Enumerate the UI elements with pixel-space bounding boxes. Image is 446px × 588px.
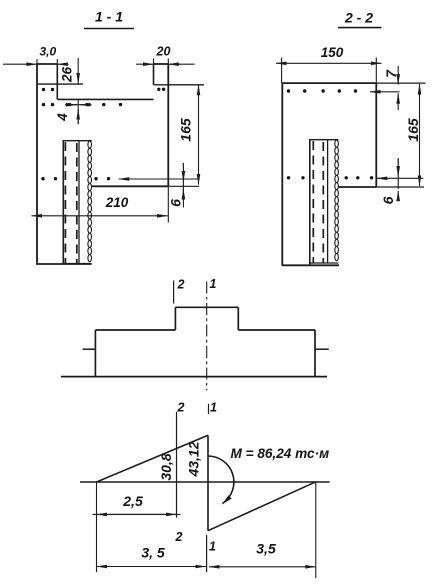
cage 2-2 top edge — [309, 139, 338, 141]
section 1-1 left ear right edge — [56, 64, 58, 99]
svg-text:M = 86,24 тс·м: M = 86,24 тс·м — [231, 446, 330, 461]
cage 1-1 top edge — [62, 140, 91, 142]
elevation ground line — [61, 376, 327, 378]
svg-text:30,8: 30,8 — [158, 453, 174, 480]
cage 1-1 left solid line — [62, 141, 64, 264]
dim 3,5 right line with arrows — [209, 566, 316, 568]
section 2-2 top edge extension — [376, 82, 425, 84]
svg-text:150: 150 — [321, 45, 344, 60]
section 1-1 right ear left edge — [153, 64, 155, 85]
cage 2-2 bottom edge — [309, 262, 338, 264]
dim 2,5 line with arrows — [93, 513, 181, 515]
dim 4 tick arrows — [67, 104, 77, 106]
cage 2-2 middle dashed line — [322, 142, 324, 263]
section 1-1 recess floor edge — [57, 98, 153, 100]
section 1-1 left ear top edge — [36, 63, 57, 65]
dim 150 ext line left — [281, 58, 283, 84]
moment diagram section line 2 upper — [176, 412, 178, 518]
dim 4 vertical line below — [77, 99, 79, 124]
cage 2-2 left solid line — [309, 140, 311, 265]
dim 150 ext line right — [375, 58, 377, 84]
svg-text:210: 210 — [105, 195, 129, 210]
svg-text:2: 2 — [175, 530, 183, 544]
section 2-2 flange bottom edge — [339, 186, 377, 188]
svg-text:3,5: 3,5 — [256, 541, 276, 557]
svg-text:2 - 2: 2 - 2 — [344, 10, 373, 26]
svg-text:1: 1 — [210, 277, 217, 291]
dim 30 line right tail with arrow — [57, 63, 68, 65]
section 2-2 bottom edge — [282, 264, 339, 266]
svg-text:26: 26 — [60, 67, 75, 84]
dim 6 s2 up arrow — [397, 191, 399, 200]
elevation main top right edge — [238, 329, 315, 331]
extension line left support — [96, 482, 98, 572]
section 1-1 mid rebar leader arrow — [119, 178, 200, 180]
dim 6 s1 up arrow — [182, 189, 184, 208]
section 2-2 mid rebar dots — [287, 176, 290, 179]
svg-text:43,12: 43,12 — [186, 441, 202, 477]
svg-text:20: 20 — [156, 45, 171, 59]
dim 30 ext tick right — [56, 59, 58, 64]
section 1-1 right ear bottom line + 165 extension — [154, 84, 205, 86]
cage 1-1 hatched strip ovals — [88, 141, 92, 148]
moment diagram baseline — [80, 481, 330, 483]
moment diagram center vertical (triangle edges) — [207, 435, 209, 530]
svg-text:6: 6 — [380, 196, 396, 204]
section 1-1 outline left edge — [36, 63, 38, 264]
dim 20 line right tail with arrow — [168, 63, 194, 65]
svg-text:1 - 1: 1 - 1 — [95, 9, 123, 25]
moment arc arrow — [208, 456, 234, 504]
cage 1-1 left dashed line — [64, 142, 66, 263]
elevation raised top edge — [175, 306, 238, 308]
moment diagram section line 1 upper tick — [208, 404, 210, 414]
dim 4 horizontal tick line — [65, 104, 92, 106]
elevation left tick — [83, 348, 96, 350]
section 1-1 rebar dots row under recess — [42, 103, 45, 106]
dim 150 line with arrows — [276, 62, 382, 64]
dim 20 ext tick left — [153, 59, 155, 65]
elevation right edge — [314, 330, 316, 376]
svg-text:2,5: 2,5 — [122, 493, 143, 509]
elevation section line 1 (dash-dot) — [206, 282, 208, 391]
dim 6 s2 down arrow — [397, 158, 399, 189]
section 1-1 right ear rebar dots — [157, 88, 160, 91]
section 1-1 title underline — [84, 28, 134, 30]
dim 165 s2 vertical line with arrows — [419, 84, 421, 186]
cage 1-1 bottom edge — [62, 263, 91, 265]
svg-text:1: 1 — [209, 540, 216, 554]
section 1-1 top-left rebar dots row 1 — [42, 88, 45, 91]
section 1-1 right ear top edge — [154, 63, 169, 65]
svg-text:165: 165 — [178, 118, 194, 142]
section 1-1 right edge — [167, 64, 169, 186]
section 2-2 top edge — [282, 82, 377, 84]
dim 20 line left tail with arrow — [136, 63, 154, 65]
svg-text:4: 4 — [55, 113, 70, 122]
dim 6 s1 down arrow — [182, 163, 184, 195]
elevation section line 2 — [173, 281, 175, 304]
moment diagram line 1 bottom tick + extension — [206, 535, 208, 572]
cage 1-1 middle solid line — [78, 141, 80, 264]
section 1-1 flange bottom edge — [92, 185, 168, 187]
dim 26 vertical line with down arrow — [77, 58, 79, 84]
section 2-2 left edge — [281, 83, 283, 265]
cage 1-1 middle dashed line — [76, 143, 78, 263]
svg-text:3, 5: 3, 5 — [141, 545, 165, 561]
dim 7 up arrow — [397, 93, 399, 110]
elevation raised right step edge — [237, 307, 239, 330]
elevation raised left step edge — [174, 307, 176, 330]
svg-text:6: 6 — [168, 199, 184, 207]
elevation main top left edge — [95, 329, 175, 331]
dim 7 down arrow — [397, 66, 399, 85]
svg-text:2: 2 — [177, 401, 185, 415]
section 2-2 mid rebar leader arrow — [377, 177, 424, 179]
section 1-1 flange bottom extension line — [168, 185, 199, 187]
dim 3,5 left line with arrows — [97, 566, 207, 568]
svg-text:3,0: 3,0 — [39, 44, 56, 58]
elevation left edge — [94, 330, 96, 376]
section 2-2 top rebar dots — [287, 89, 290, 92]
dim 20 ext tick right — [167, 59, 169, 65]
cage 2-2 hatched strip ovals — [335, 140, 339, 147]
cage 2-2 middle solid line — [327, 140, 329, 263]
svg-text:2: 2 — [177, 278, 185, 292]
elevation right tick — [315, 348, 329, 350]
moment diagram left triangle hypotenuse — [97, 435, 209, 482]
section 2-2 title underline — [338, 27, 382, 29]
cage 2-2 left dashed line — [312, 141, 314, 263]
svg-text:1: 1 — [210, 401, 217, 415]
dim 30 line left tail with arrow — [3, 63, 37, 65]
dim 4 up arrow — [77, 109, 79, 124]
svg-text:165: 165 — [405, 118, 421, 142]
dim 165 s1 vertical line with arrows — [198, 85, 200, 185]
section 1-1 mid rebar dots — [41, 177, 44, 180]
section 1-1 left ear bottom line (26 extension) — [37, 83, 83, 85]
section 2-2 flange bottom extension — [376, 186, 424, 188]
section 1-1 bottom edge — [36, 263, 91, 265]
dim 30 ext tick left — [36, 59, 38, 64]
dim 210 line with arrows — [32, 215, 168, 217]
section 2-2 right edge — [375, 83, 377, 187]
svg-text:7: 7 — [383, 69, 399, 78]
moment diagram right triangle hypotenuse — [208, 482, 316, 531]
dim 210 right extension line — [167, 186, 169, 222]
section 2-2 top rebar leader arrow — [370, 91, 400, 93]
extension line right support — [315, 482, 317, 578]
